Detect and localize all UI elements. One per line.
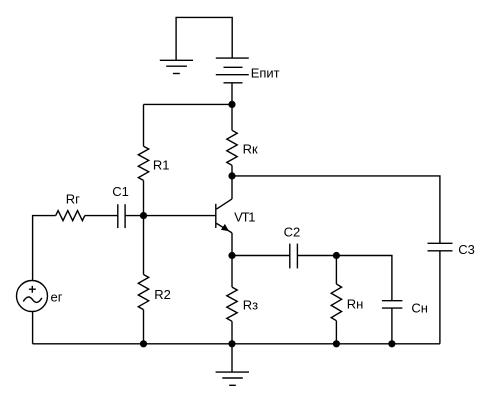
wire (Rн bottom lead)	[335, 321, 337, 344]
svg-text:Епит: Епит	[251, 65, 280, 80]
svg-text:Rг: Rг	[66, 191, 80, 206]
node (Rн bottom junction)	[333, 340, 340, 347]
node (emitter junction)	[228, 252, 235, 259]
wire (Rз top lead)	[231, 256, 233, 288]
wire (Rн top lead)	[335, 256, 337, 285]
node (Сн bottom junction)	[388, 340, 395, 347]
wire (Rз bottom lead)	[231, 321, 233, 344]
svg-text:Rз: Rз	[243, 298, 258, 313]
node (Rн top junction)	[333, 252, 340, 259]
svg-text:Rк: Rк	[243, 141, 258, 156]
wire (ground lead)	[231, 344, 233, 372]
wire (battery to Vcc node)	[231, 83, 233, 105]
resistor Rз	[227, 287, 237, 321]
node (Vcc junction)	[228, 101, 235, 108]
wire (Rк top lead)	[231, 104, 233, 130]
wire (left corner to source)	[33, 216, 56, 281]
wire (collector stub)	[231, 176, 233, 199]
resistor Rк	[227, 130, 237, 165]
node (ground junction)	[228, 340, 235, 347]
capacitor C1	[118, 204, 125, 228]
capacitor C3	[428, 243, 453, 251]
resistor R2	[138, 275, 148, 310]
wire (Vcc rail)	[144, 103, 233, 105]
wire (R1 top lead)	[143, 104, 145, 146]
svg-text:C3: C3	[458, 242, 475, 257]
svg-text:Rн: Rн	[347, 297, 364, 312]
wire (Rг to C1)	[85, 215, 118, 217]
svg-text:Сн: Сн	[411, 301, 428, 316]
ground (bottom)	[216, 372, 249, 385]
transistor VT1	[216, 199, 232, 233]
resistor Rн	[331, 284, 341, 321]
svg-text:ег: ег	[51, 290, 63, 305]
capacitor C2	[290, 244, 298, 269]
wire (collector rail to C3 branch)	[232, 176, 440, 243]
node (collector junction)	[228, 172, 235, 179]
wire (emitter rail to C2)	[232, 255, 290, 257]
ground (top left)	[160, 60, 193, 73]
resistor R1	[138, 146, 148, 180]
wire (base wire)	[125, 215, 216, 217]
wire (R2 bottom lead)	[143, 310, 145, 344]
svg-text:R1: R1	[153, 157, 170, 172]
wire (source bottom lead)	[32, 312, 34, 344]
node (R2 bottom junction)	[140, 340, 147, 347]
wire (bottom rail)	[33, 343, 440, 345]
source ег	[17, 281, 48, 312]
svg-text:VT1: VT1	[234, 210, 255, 225]
svg-text:R2: R2	[154, 287, 171, 302]
node (base junction)	[140, 212, 147, 219]
wire (R2 top lead)	[143, 216, 145, 275]
resistor Rг	[56, 211, 85, 221]
wire (emitter stub)	[231, 233, 233, 256]
wire (R1 bottom lead)	[143, 180, 145, 215]
wire (C3 bottom lead)	[439, 251, 441, 344]
wire (Rк bottom lead)	[231, 165, 233, 176]
wire (C2 to Сн branch)	[297, 256, 392, 301]
capacitor Сн	[382, 301, 403, 308]
battery Епит	[216, 58, 249, 83]
svg-text:C1: C1	[112, 184, 129, 199]
svg-text:C2: C2	[284, 225, 301, 240]
wire (top bracket from ground to battery)	[176, 17, 232, 60]
wire (Сн bottom lead)	[391, 308, 393, 344]
